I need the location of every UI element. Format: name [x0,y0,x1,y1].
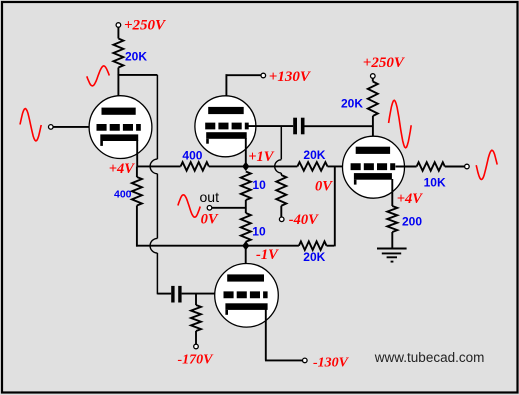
terminal out [207,206,212,211]
wire V4 cathode lead down [265,309,267,360]
wire coupling vertical middle [156,174,158,239]
wire 400 to +1V node [209,165,246,167]
svg-text:-170V: -170V [178,353,215,368]
hop over row1 [150,159,157,174]
terminal -130V [303,358,308,363]
wire plate lead tube V1 [117,74,119,109]
wire resistor to -170V terminal [195,331,197,344]
wire coupling vertical lower [156,253,158,294]
svg-text:20K: 20K [125,49,147,63]
terminal -40V [279,217,284,222]
wire 400 bottom to row2 [136,206,138,247]
wire +1V node to 20K [246,165,298,167]
wire out to divider [212,207,246,209]
wire input to V1 grid [53,126,97,128]
wire V2 grid to capacitor C1 [248,125,293,127]
wire 20K to V3 plate [372,116,374,148]
wire V2 plate lead [225,74,227,108]
node -1V [242,241,249,250]
resistor 10 (upper) [241,172,251,201]
wire V4 plate lead [245,246,247,276]
svg-text:+250V: +250V [363,55,406,71]
wire coupling to C2 [157,293,171,295]
wire 10K to output terminal [445,166,465,168]
hop over row1 (-40V branch) [275,160,282,173]
svg-text:+4V: +4V [397,191,424,207]
terminal -170V [194,344,199,349]
tube V2 [195,96,256,157]
resistor 20K (right plate) [368,82,378,117]
svg-text:+4V: +4V [109,161,136,177]
terminal +250V (left) [116,23,121,28]
wire V3 right lead to 10K [396,166,417,168]
node +1V [242,162,249,171]
svg-text:400: 400 [114,188,132,200]
sine squiggle at V1 plate [87,66,110,86]
resistor 20K (row1) [297,162,327,171]
svg-text:20K: 20K [303,148,325,162]
capacitor C2 [171,286,174,303]
wire coupling vertical upper [156,75,158,159]
wire C2 to V4 grid [182,293,224,295]
resistor 400 (V1 cathode, vertical) [136,166,138,177]
wire R bottom to junction [117,68,119,76]
wire 200 to ground [391,232,393,249]
sine squiggle output [476,150,497,179]
wire V2 cathode lead to +1V node [245,138,247,166]
wire V1 cathode to 400 resistor [137,165,180,167]
terminal +130V [261,73,266,78]
wire -1V node to 20K [246,245,299,247]
wire 20K to V3 grid [328,165,352,167]
wire terminal to 20K [372,78,374,81]
ground [377,248,407,250]
wire to -130V terminal [265,359,303,361]
svg-text:-40V: -40V [289,212,319,228]
tube V3 [343,136,405,198]
wire 10 to out junction [245,200,247,213]
sine squiggle out [178,195,200,217]
terminal +250V (right) [371,74,376,79]
svg-text:0V: 0V [201,212,219,228]
svg-text:200: 200 [402,214,422,228]
sine squiggle V3 plate [389,100,412,148]
resistor to -170V [195,294,197,305]
wire 20K up to grid row [327,245,335,247]
svg-text:10: 10 [252,224,266,238]
svg-text:-1V: -1V [256,247,279,263]
resistor 20K (row2) [299,241,327,250]
svg-text:0V: 0V [315,179,333,195]
resistor 400 (horizontal) [181,162,209,171]
resistor to -40V [276,175,286,206]
svg-text:400: 400 [182,148,202,162]
sine squiggle input [20,109,41,141]
svg-text:-130V: -130V [313,355,350,370]
svg-text:+1V: +1V [248,149,275,165]
resistor 20K (left plate load) [113,39,123,68]
wire V2 plate to +130V terminal [226,74,262,76]
svg-text:www.tubecad.com: www.tubecad.com [374,350,485,365]
svg-text:out: out [200,189,220,205]
capacitor C1 [293,118,297,135]
tube V4 [215,264,279,328]
wire V1 cathode lead [136,140,138,166]
terminal input [49,125,54,130]
resistor 10 (lower) [241,213,251,242]
svg-text:+250V: +250V [124,18,167,34]
terminal output [465,164,470,169]
hop over row2 [150,238,157,253]
wire 10 to -1V node [245,242,247,246]
wire C1 junction down [280,126,282,159]
svg-text:+130V: +130V [269,69,312,85]
wire V3 cathode lead [391,179,393,206]
svg-text:10K: 10K [424,176,446,190]
svg-text:20K: 20K [303,250,325,264]
wire resistor to -40V terminal [280,206,282,217]
svg-text:10: 10 [252,178,266,192]
svg-text:20K: 20K [341,96,363,110]
wire hop to resistor [280,173,282,175]
tube V1 [89,96,152,159]
wire terminal to R 20K [117,27,119,38]
wire C1 to V3 plate lead [305,125,374,127]
resistor 200 [387,206,397,232]
resistor 10K (output) [417,162,445,171]
wire junction right to coupling line [118,74,158,76]
